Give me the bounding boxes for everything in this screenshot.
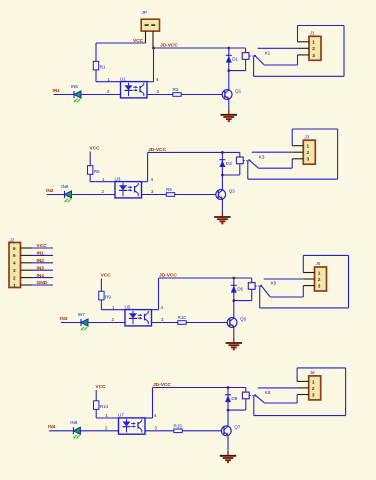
svg-text:3: 3 xyxy=(307,157,310,163)
opto-coupler U5 xyxy=(125,310,152,326)
wire JD-VCC rail xyxy=(148,151,240,153)
wire VCC vertical to R xyxy=(89,152,91,166)
LED IN6 xyxy=(65,191,72,198)
wire Q emitter to ground xyxy=(227,435,229,451)
jumper JP1 pin 1 lead xyxy=(145,31,147,43)
svg-text:VCC: VCC xyxy=(95,384,106,390)
svg-text:1: 1 xyxy=(307,144,310,150)
svg-text:U5: U5 xyxy=(125,304,131,309)
svg-text:IN5: IN5 xyxy=(71,84,79,89)
svg-text:VCC: VCC xyxy=(101,273,112,279)
svg-text:J3: J3 xyxy=(303,134,309,139)
wire input to LED xyxy=(49,430,73,432)
transistor Q7 xyxy=(227,410,229,426)
relay switch K5 xyxy=(260,285,262,287)
wire LED to opto pin2 xyxy=(72,194,116,196)
wire R to opto pin1 xyxy=(95,409,97,418)
svg-text:K3: K3 xyxy=(259,155,265,160)
diode D3 xyxy=(221,152,223,175)
svg-text:2: 2 xyxy=(312,46,315,52)
relay link dashed xyxy=(249,395,254,397)
node coil junction xyxy=(232,299,235,302)
relay coil K8 xyxy=(245,388,247,393)
svg-text:Q7: Q7 xyxy=(234,425,241,430)
pin 1 xyxy=(21,284,33,286)
node coil junction xyxy=(227,409,230,412)
relay coil K1 xyxy=(245,48,247,53)
wire opto pin4 to JD-VCC xyxy=(145,417,153,419)
relay coil K3 xyxy=(239,152,241,157)
wire opto pin3 to R xyxy=(145,430,174,432)
wire R to Q base xyxy=(182,430,221,432)
wire input to LED xyxy=(54,94,75,96)
wire pole to ring xyxy=(253,396,255,416)
node rail junction xyxy=(227,386,230,389)
svg-text:U1: U1 xyxy=(120,76,126,81)
pin 2 xyxy=(298,47,310,49)
wire VCC vertical to R xyxy=(95,43,97,61)
wire R to opto pin1 xyxy=(95,70,97,82)
svg-text:IN1: IN1 xyxy=(37,251,45,257)
svg-text:R1: R1 xyxy=(100,64,106,69)
node JD-VCC junction xyxy=(152,47,155,50)
wire pole to ring xyxy=(259,287,261,308)
svg-text:D8: D8 xyxy=(231,396,237,401)
svg-text:Q1: Q1 xyxy=(235,88,242,93)
wire opto pin3 to R xyxy=(147,94,173,96)
relay link dashed xyxy=(249,55,254,57)
svg-text:3: 3 xyxy=(312,53,315,59)
svg-text:K5: K5 xyxy=(271,280,277,285)
pin 1 xyxy=(297,380,309,382)
ground xyxy=(214,216,230,218)
svg-text:IN7: IN7 xyxy=(78,312,86,317)
svg-text:R10: R10 xyxy=(178,315,187,320)
svg-text:R6: R6 xyxy=(166,187,172,192)
transistor Q1 xyxy=(228,71,230,91)
wire JD-VCC rail xyxy=(153,387,246,389)
wire JD-VCC rail xyxy=(159,277,252,279)
resistor R15 xyxy=(174,429,182,433)
relay switch K1 xyxy=(254,55,256,57)
node rail junction xyxy=(227,47,230,50)
connector J2 xyxy=(9,243,21,288)
svg-text:R9: R9 xyxy=(105,294,111,299)
resistor R2 xyxy=(173,93,181,97)
svg-text:K8: K8 xyxy=(265,390,271,395)
LED IN7 xyxy=(81,319,88,326)
wire opto pin3 to R xyxy=(142,194,167,196)
pin 3 xyxy=(292,158,303,160)
relay coil K5 xyxy=(251,278,253,283)
resistor R9 xyxy=(99,291,104,300)
svg-text:2: 2 xyxy=(318,277,321,283)
svg-text:1: 1 xyxy=(13,283,16,288)
wire NO contact to pin2 xyxy=(264,278,304,280)
ground xyxy=(226,342,242,344)
wire NC contact xyxy=(264,402,297,404)
svg-text:D6: D6 xyxy=(237,287,243,292)
svg-text:IN3: IN3 xyxy=(37,265,45,271)
wire net IN1 xyxy=(32,254,53,256)
LED IN8 xyxy=(73,427,80,434)
relay switch K8 xyxy=(254,394,256,396)
svg-text:Q5: Q5 xyxy=(240,316,247,321)
svg-text:1: 1 xyxy=(312,40,315,46)
svg-text:K1: K1 xyxy=(265,50,271,55)
svg-text:IN3: IN3 xyxy=(60,316,68,322)
svg-text:J2: J2 xyxy=(8,238,14,243)
transistor Q3 xyxy=(221,175,223,190)
wire VCC vertical to R xyxy=(100,278,102,291)
svg-text:1: 1 xyxy=(318,270,321,276)
svg-text:3: 3 xyxy=(13,268,16,273)
pin 1 xyxy=(292,145,303,147)
pin 3 xyxy=(297,394,309,396)
wire NO contact to pin2 xyxy=(258,47,298,49)
wire input to LED xyxy=(47,194,65,196)
pin 4 xyxy=(21,262,33,264)
svg-text:3: 3 xyxy=(312,392,315,398)
pin 5 xyxy=(21,254,33,256)
svg-text:U7: U7 xyxy=(118,413,124,418)
svg-text:1: 1 xyxy=(312,379,315,385)
diode D6 xyxy=(233,278,235,301)
relay switch K3 xyxy=(248,159,250,161)
svg-text:J5: J5 xyxy=(315,261,321,266)
wire net IN2 xyxy=(32,262,53,264)
wire opto pin4 to JD-VCC xyxy=(142,181,148,183)
ground xyxy=(220,455,236,457)
svg-text:J6: J6 xyxy=(309,370,315,375)
svg-text:2: 2 xyxy=(13,275,16,280)
transistor Q5 xyxy=(233,301,235,319)
pin 1 xyxy=(303,272,314,274)
diode D8 xyxy=(227,388,229,411)
svg-text:IN6: IN6 xyxy=(61,184,69,189)
relay link dashed xyxy=(255,285,260,287)
ground xyxy=(221,114,237,116)
wire pole to ring xyxy=(253,57,255,77)
jumper JP1 pin 2 lead xyxy=(152,31,154,48)
wire LED to opto pin2 xyxy=(80,430,118,432)
wire Q emitter to ground xyxy=(233,327,235,338)
pin 2 xyxy=(21,277,33,279)
resistor R6 xyxy=(166,193,174,197)
svg-text:R5: R5 xyxy=(94,169,100,174)
wire JD-VCC rail xyxy=(154,47,246,49)
wire NO contact to pin2 xyxy=(252,151,292,153)
svg-text:IN8: IN8 xyxy=(70,420,78,425)
pin 3 xyxy=(21,269,33,271)
wire NC contact xyxy=(264,64,298,66)
wire R to Q base xyxy=(181,94,222,96)
svg-text:5: 5 xyxy=(13,253,16,258)
opto-coupler U3 xyxy=(115,182,142,198)
svg-text:JP: JP xyxy=(141,10,148,15)
wire VCC horizontal xyxy=(96,42,146,44)
svg-text:Q3: Q3 xyxy=(229,188,236,193)
node coil junction xyxy=(227,69,230,72)
svg-text:VCC: VCC xyxy=(133,38,144,44)
svg-text:D3: D3 xyxy=(226,161,232,166)
wire R to opto pin1 xyxy=(100,300,102,310)
wire net IN3 xyxy=(32,269,53,271)
wire NC contact xyxy=(258,167,292,169)
svg-text:6: 6 xyxy=(13,246,16,251)
svg-text:D1: D1 xyxy=(232,57,238,62)
connector J5 xyxy=(315,267,327,291)
pin 2 xyxy=(297,387,309,389)
wire VCC vertical to R xyxy=(95,390,97,401)
wire NO contact to pin2 xyxy=(258,387,297,389)
svg-text:IN2: IN2 xyxy=(37,258,45,264)
wire opto pin4 to JD-VCC xyxy=(152,309,159,311)
wire opto pin3 to R xyxy=(152,322,178,324)
opto-coupler U1 xyxy=(121,82,148,98)
svg-text:IN4: IN4 xyxy=(37,273,45,279)
wire LED to opto pin2 xyxy=(81,94,121,96)
opto-coupler U7 xyxy=(119,418,146,434)
wire R to opto pin1 xyxy=(89,174,91,181)
wire input to LED xyxy=(61,322,81,324)
svg-text:VCC: VCC xyxy=(37,243,48,249)
svg-text:2: 2 xyxy=(307,150,310,156)
svg-text:IN1: IN1 xyxy=(53,88,61,94)
resistor R5 xyxy=(88,166,93,175)
svg-text:2: 2 xyxy=(312,386,315,392)
node rail junction xyxy=(221,151,224,154)
svg-text:J1: J1 xyxy=(309,31,315,36)
svg-text:GND: GND xyxy=(37,280,48,286)
node coil junction xyxy=(221,174,224,177)
wire Q emitter to ground xyxy=(228,99,230,110)
wire R to Q base xyxy=(186,322,227,324)
svg-text:IN4: IN4 xyxy=(48,424,56,430)
svg-text:R15: R15 xyxy=(174,423,183,428)
resistor R14 xyxy=(94,401,99,410)
node rail junction xyxy=(232,277,235,280)
pin 3 xyxy=(303,285,314,287)
wire LED to opto pin2 xyxy=(88,322,125,324)
connector J3 xyxy=(303,140,315,164)
diode D1 xyxy=(228,48,230,71)
jumper JP1 xyxy=(141,19,159,31)
svg-text:IN2: IN2 xyxy=(46,188,54,194)
LED IN5 xyxy=(74,91,81,98)
connector J1 xyxy=(309,36,321,60)
pin 3 xyxy=(298,54,310,56)
svg-text:R14: R14 xyxy=(100,404,109,409)
svg-text:4: 4 xyxy=(13,261,16,266)
svg-text:R2: R2 xyxy=(173,87,179,92)
wire pole to ring xyxy=(247,161,249,179)
pin 2 xyxy=(292,151,303,153)
svg-text:VCC: VCC xyxy=(89,146,100,152)
wire net IN4 xyxy=(32,277,53,279)
wire net VCC xyxy=(32,247,53,249)
svg-text:U3: U3 xyxy=(115,176,121,181)
svg-text:3: 3 xyxy=(318,284,321,290)
relay link dashed xyxy=(243,159,248,161)
pin 2 xyxy=(303,278,314,280)
pin 1 xyxy=(298,41,310,43)
wire opto pin4 to JD-VCC xyxy=(147,81,154,83)
wire R to Q base xyxy=(175,194,216,196)
wire NC contact xyxy=(270,296,303,298)
pin 6 xyxy=(21,247,33,249)
resistor R10 xyxy=(178,321,186,325)
connector J6 xyxy=(309,376,321,400)
wire Q emitter to ground xyxy=(221,199,223,212)
resistor R1 xyxy=(93,61,98,70)
wire net GND xyxy=(32,284,53,286)
